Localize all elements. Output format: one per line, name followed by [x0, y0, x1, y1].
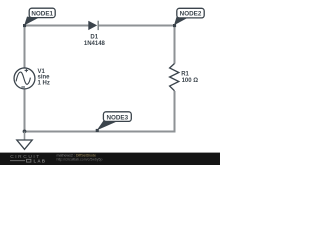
wire left-top L (V1 top to NODE1 corner to diode anode) — [25, 26, 89, 69]
wire top-right L (diode cathode to NODE2 corner to R1 top) — [98, 26, 175, 64]
junction dot at ground node — [23, 130, 27, 134]
resistor R1 zigzag — [170, 64, 179, 91]
diode D1 symbol — [88, 21, 98, 30]
svg-text:http://circuitlab.com/c/5wby5p: http://circuitlab.com/c/5wby5p — [57, 157, 103, 161]
node NODE1 callout — [23, 8, 55, 27]
wire bottom U (R1 bottom to corner, bottom run, ground junction up to V1 bottom) — [25, 89, 175, 132]
svg-text:1N4148: 1N4148 — [84, 41, 106, 47]
voltage source V1 — [14, 68, 35, 89]
CircuitLab logo — [10, 154, 46, 163]
svg-text:NODE3: NODE3 — [106, 114, 128, 121]
svg-text:NODE1: NODE1 — [31, 10, 53, 17]
svg-text:D1: D1 — [90, 35, 98, 41]
ground symbol — [17, 132, 32, 150]
svg-text:R1: R1 — [181, 71, 189, 77]
svg-text:1 Hz: 1 Hz — [38, 80, 50, 86]
node NODE3 callout — [96, 112, 132, 132]
node NODE2 callout — [173, 8, 204, 27]
svg-text:LAB: LAB — [34, 158, 47, 163]
svg-text:NODE2: NODE2 — [180, 11, 202, 18]
svg-text:100 Ω: 100 Ω — [182, 78, 199, 84]
footer bar — [0, 153, 220, 165]
